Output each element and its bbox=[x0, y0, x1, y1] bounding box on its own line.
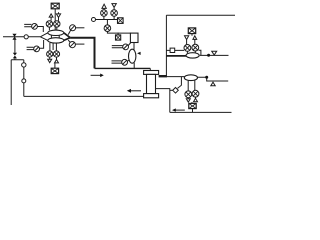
wire diamond link bbox=[170, 89, 173, 91]
gauge G2 tails bbox=[112, 61, 122, 63]
gauge PI-4 (lower right) bbox=[69, 42, 75, 48]
vessel body bbox=[147, 74, 156, 93]
wire merge Y right of ellipses bbox=[64, 33, 70, 41]
wire PI-3 tail bbox=[76, 27, 85, 29]
instrument box B3 (X) bbox=[118, 18, 124, 24]
fitting circle on riser upper bbox=[22, 63, 26, 67]
gauge PI-2 bbox=[34, 46, 40, 52]
wire right return riser bbox=[23, 60, 25, 97]
fitting circle on feed line bbox=[24, 35, 28, 39]
arrow flow left on bottom line bbox=[175, 109, 184, 111]
wire diamond riser elbow bbox=[178, 77, 182, 88]
valve circle VT3 (X) bbox=[104, 25, 111, 32]
gauge G2 bbox=[122, 59, 128, 65]
arrow flow right below discharge bbox=[91, 74, 101, 76]
wire bypass line R1 bbox=[166, 49, 184, 51]
valve circle V1 (X) bbox=[46, 21, 52, 27]
valve circle VT2 (X) bbox=[111, 10, 118, 17]
vessel top flange bbox=[144, 71, 159, 75]
valve circle VT1 (X) bbox=[101, 10, 108, 17]
gauge PI-1 bbox=[32, 24, 38, 30]
valve body E2 (lower ellipse) bbox=[48, 38, 64, 43]
valve circle VR1 (X) bbox=[184, 45, 191, 52]
wire stems VR to ellipse bbox=[187, 51, 195, 53]
wire stems ER2 down bbox=[188, 80, 195, 91]
wire PI-4 tail bbox=[76, 43, 85, 45]
arrow mark right of rotameter bbox=[137, 52, 141, 55]
rotameter (vertical ellipse) bbox=[133, 43, 135, 51]
wire tee below V-2 bbox=[11, 58, 24, 59]
diamond fitting bbox=[173, 88, 179, 94]
wire ticks between E1 and E2 bbox=[51, 35, 59, 38]
wire main pipe R1 thick bbox=[166, 55, 186, 57]
wire stems E2 down bbox=[50, 43, 57, 51]
wire thick discharge line bbox=[70, 38, 94, 69]
wire from VT3 to filter bbox=[107, 32, 130, 34]
arrow down open below V3 bbox=[48, 57, 52, 63]
wire left drain drop bbox=[10, 60, 12, 105]
gauge G1 tails bbox=[112, 46, 123, 48]
gauge PI-2 tails bbox=[27, 47, 34, 49]
wire R2 pipe from box edge bbox=[166, 76, 184, 78]
gauge PI-1 tails bbox=[24, 24, 31, 26]
instrument box B5 (X) bbox=[188, 28, 195, 34]
wire PI-2 connector bbox=[40, 40, 44, 48]
wire right box top line bbox=[166, 14, 235, 16]
wire vessel feed stub bbox=[149, 68, 151, 70]
valve circle V4 (X) bbox=[53, 51, 59, 57]
instrument box B2 (bottom, X) bbox=[51, 68, 58, 73]
arrow down open left bbox=[185, 36, 189, 45]
wire header line bbox=[96, 19, 118, 21]
arrow up open below VR4 bbox=[194, 97, 198, 102]
junction dot on R2 pipe bbox=[205, 76, 208, 79]
arrow up open (top middle) bbox=[102, 4, 106, 10]
wire bottom line right bbox=[170, 111, 232, 113]
instrument box B4 (X) bbox=[117, 33, 119, 35]
instrument box B1 (top, X) bbox=[51, 3, 59, 9]
junction dot on R1 pipe bbox=[207, 54, 210, 57]
arrow down open (top middle) bbox=[112, 4, 116, 10]
arrow flow left on return line bbox=[131, 90, 142, 92]
wire stem header down bbox=[106, 20, 108, 25]
valve circle VR3 (X) bbox=[185, 91, 192, 98]
arrow down open below VR3 bbox=[186, 98, 190, 102]
wire stems to header bbox=[104, 16, 114, 19]
wire PI-4 connector bbox=[68, 40, 70, 42]
wire vessel outlet elbow bbox=[156, 89, 170, 113]
valve circle V3 (X) bbox=[47, 51, 53, 57]
wire main pipe R1 right bbox=[200, 54, 229, 56]
drain triangle open on R1 pipe bbox=[212, 51, 217, 55]
wire discharge horizontal to vessel bbox=[95, 67, 151, 69]
valve V-1 (hand valve, filled) bbox=[12, 34, 16, 40]
wire drop from valve V-1 bbox=[14, 37, 16, 53]
wire stem to B6 bbox=[191, 102, 193, 103]
arrow up open right bbox=[193, 36, 197, 44]
wire main feed line bbox=[3, 36, 40, 38]
gauge PI-3 (upper right) bbox=[70, 25, 76, 31]
wire PI-3 connector bbox=[68, 30, 70, 34]
arrow up open below V4 bbox=[55, 57, 59, 63]
vessel bottom flange bbox=[144, 94, 159, 98]
wire stems V1 V2 to E1 bbox=[49, 27, 56, 30]
drain triangle open below R2 pipe bbox=[211, 82, 215, 86]
wire stem from B1 to E1 bbox=[54, 9, 56, 30]
wire G2 connector bbox=[127, 60, 129, 61]
valve circle V2 (X) bbox=[54, 21, 60, 27]
wire PI-1 connector bbox=[38, 27, 44, 33]
instrument box B6 (X) bbox=[189, 103, 196, 108]
control valve ER2 (ellipse) bbox=[184, 75, 197, 81]
wire G1 connector bbox=[128, 43, 130, 46]
control valve ER1 (ellipse) bbox=[186, 53, 199, 58]
wire stem B5 down bbox=[191, 34, 193, 36]
wire bypass elbow to main bbox=[199, 50, 201, 55]
valve V-2 (filled) bbox=[13, 53, 17, 59]
fitting circle on riser lower bbox=[22, 79, 26, 83]
valve body E1 (upper ellipse) bbox=[48, 30, 64, 35]
wire stem to B2 bbox=[54, 63, 56, 68]
filter pot rectangle bbox=[130, 33, 138, 42]
fitting circle header left end bbox=[92, 18, 96, 22]
wire right box left edge bbox=[165, 15, 167, 76]
wire return line bottom bbox=[24, 95, 144, 97]
fitting box on bypass bbox=[170, 48, 175, 52]
arrow up (open) left of stem bbox=[49, 14, 53, 21]
valve circle VR4 (X) bbox=[192, 90, 199, 97]
arrow down (open) right of stem bbox=[56, 12, 60, 21]
wire rotameter drain bbox=[133, 63, 135, 69]
gauge G1 bbox=[123, 44, 129, 50]
wire vessel inlet thick bbox=[159, 75, 167, 77]
wire R2 pipe right bbox=[197, 77, 228, 81]
valve circle VR2 (X) bbox=[192, 44, 199, 51]
wire Y-split to valve branches bbox=[40, 33, 48, 41]
